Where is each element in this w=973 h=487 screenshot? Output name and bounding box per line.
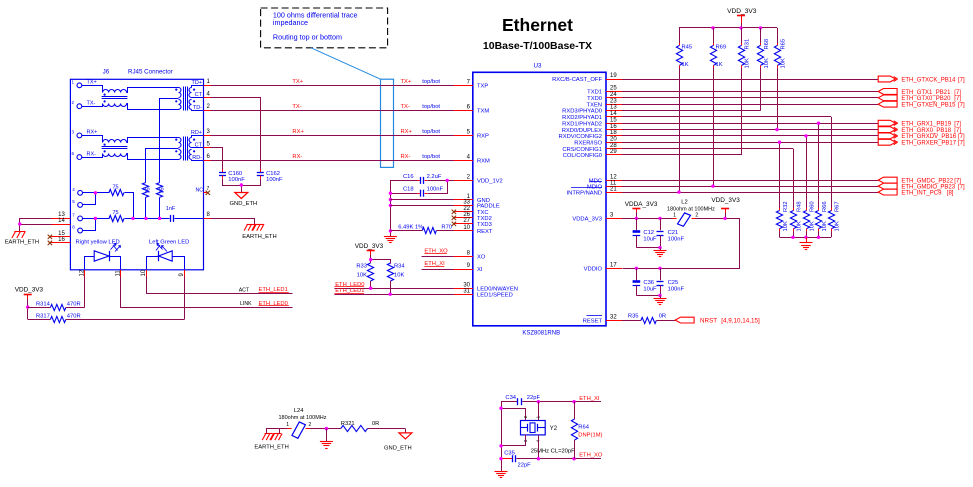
- svg-text:RXDV/CONFIG2: RXDV/CONFIG2: [559, 134, 602, 140]
- svg-text:22pF: 22pF: [518, 463, 532, 469]
- U3 pin 21 INTRP/NAND: [567, 186, 622, 196]
- svg-text:top/bot: top/bot: [422, 79, 440, 85]
- port ETH_GRXER_PB17: [878, 139, 965, 146]
- EARTH_ETH symbol (pin8): [244, 224, 264, 231]
- svg-text:ETH_LED0: ETH_LED0: [335, 282, 364, 288]
- svg-text:TX+: TX+: [292, 79, 303, 85]
- resistor R45 1K: [679, 28, 681, 43]
- wire PADDLE pin33: [390, 205, 454, 207]
- resistor R35 0R: [622, 314, 675, 324]
- junction dots VDDA row: [635, 217, 727, 220]
- RJ45 bottom pin number 10: [141, 269, 147, 276]
- wire caps to GND_ETH: [223, 179, 261, 193]
- port ETH_GRX1_PB19: [878, 120, 961, 127]
- net label ETH_XO (crystal): [579, 452, 603, 458]
- U3 pin 11 MDIO: [587, 180, 622, 190]
- svg-text:top/bot: top/bot: [422, 154, 440, 160]
- resistor 75 (TX center tap): [156, 183, 165, 219]
- termination wiring pin4/5: [83, 193, 110, 205]
- svg-text:10Base-T/100Base-TX: 10Base-T/100Base-TX: [483, 40, 592, 52]
- svg-text:[7]: [7]: [954, 90, 961, 96]
- svg-text:C12: C12: [643, 230, 654, 236]
- svg-text:TXD0: TXD0: [587, 96, 602, 102]
- U3 pin 27 TXD3: [454, 218, 492, 228]
- junction dots VDD_1V2 net: [389, 179, 449, 233]
- svg-text:LED1/SPEED: LED1/SPEED: [477, 292, 513, 298]
- svg-text:TX+: TX+: [87, 80, 97, 86]
- svg-text:VDD_3V3: VDD_3V3: [727, 8, 757, 15]
- wire U3 to port ETH_GTXEN_PB15: [622, 104, 878, 106]
- svg-text:29: 29: [610, 149, 617, 155]
- junction dots termination: [94, 191, 162, 220]
- svg-text:ETH_GRX1_PB19: ETH_GRX1_PB19: [901, 122, 951, 128]
- svg-text:Routing top or bottom: Routing top or bottom: [273, 33, 342, 42]
- wire RJ45 to PHY row y=135.4: [204, 135, 473, 137]
- RJ45 secondary label CT: [195, 142, 203, 148]
- port ETH_GTX0_PB20: [878, 95, 961, 102]
- svg-text:0R: 0R: [372, 421, 379, 427]
- capacitor C12 10uF: [633, 218, 657, 247]
- svg-text:R60: R60: [809, 201, 815, 212]
- svg-text:ETH_GTXEN_PB15: ETH_GTXEN_PB15: [901, 103, 956, 109]
- svg-text:18: 18: [610, 130, 617, 136]
- right yellow LED: [85, 244, 121, 270]
- port ETH_INT_PC9: [878, 189, 954, 196]
- RJ45 pin 5: [72, 199, 82, 207]
- U3 pin 4 RXM: [454, 155, 490, 165]
- U3 pin 12 MDC: [589, 174, 622, 184]
- svg-text:10K: 10K: [394, 273, 404, 279]
- U3 pin 15 RXD1/PHYAD2: [562, 117, 622, 127]
- net label TX+ (left): [292, 79, 303, 85]
- resistor R67 10K: [828, 201, 840, 237]
- RJ45 pin number 2: [207, 104, 211, 110]
- U3 pin 3 VDDA_3V3: [572, 213, 622, 223]
- capacitor C36 10uF: [633, 268, 657, 295]
- svg-text:ETH_GTX0_PB20: ETH_GTX0_PB20: [901, 96, 951, 102]
- svg-text:13: 13: [610, 105, 617, 111]
- svg-text:C35: C35: [504, 451, 515, 457]
- svg-text:[7]: [7]: [954, 122, 961, 128]
- svg-text:XI: XI: [477, 267, 483, 273]
- net label ETH_XI (PHY): [422, 261, 454, 270]
- svg-text:U3: U3: [534, 63, 542, 70]
- svg-text:NRST: NRST: [700, 318, 717, 325]
- svg-text:[7]: [7]: [958, 141, 965, 147]
- svg-text:10K: 10K: [796, 221, 802, 231]
- wire pin7 row: [125, 218, 170, 220]
- svg-text:PADDLE: PADDLE: [477, 204, 500, 210]
- RX common-mode choke: [82, 136, 179, 160]
- net label RX+ (left): [292, 129, 304, 135]
- RJ45 pin 4: [72, 187, 82, 195]
- svg-text:CRS/CONFIG1: CRS/CONFIG1: [562, 147, 602, 153]
- svg-text:VDDA_3V3: VDDA_3V3: [625, 201, 658, 208]
- svg-text:75: 75: [113, 185, 119, 191]
- ground (VDDA caps): [654, 251, 667, 257]
- RX isolation transformer: [146, 136, 204, 183]
- annotation dashed note box: [261, 8, 388, 48]
- port ETH_GRX0_PB18: [878, 127, 961, 134]
- resistor R65 10K: [774, 28, 786, 131]
- svg-text:100nF: 100nF: [266, 177, 283, 183]
- net label ETH_XI (crystal): [579, 396, 600, 402]
- RJ45 connector J6 body: [70, 79, 203, 269]
- svg-text:L24: L24: [294, 408, 304, 414]
- wire CRS/CONFIG1 strap: [622, 117, 832, 208]
- svg-text:VDD_3V3: VDD_3V3: [711, 197, 740, 204]
- svg-text:TXP: TXP: [477, 84, 488, 90]
- EARTH_ETH label left: [5, 239, 39, 245]
- svg-text:TXD3: TXD3: [477, 222, 492, 228]
- junction dots crystal XI row: [537, 400, 576, 403]
- svg-text:VDD_1V2: VDD_1V2: [477, 179, 503, 185]
- wire VDDA pin3 row: [622, 218, 677, 220]
- VDD_3V3 power (LED resistors): [15, 287, 44, 320]
- svg-text:R67: R67: [834, 201, 840, 212]
- svg-text:VDD_3V3: VDD_3V3: [15, 287, 44, 294]
- U3 pin 30 LED0/NWAYEN: [454, 282, 518, 292]
- net label TX+ (right): [401, 79, 441, 85]
- wire crystal top rail ETH_XI: [502, 402, 602, 472]
- resistor R66 10K: [815, 122, 827, 238]
- svg-text:[7]: [7]: [958, 134, 965, 140]
- U3 pin 9 XI: [454, 263, 483, 273]
- svg-text:RX-: RX-: [401, 154, 411, 160]
- svg-text:GND_ETH: GND_ETH: [230, 201, 258, 207]
- wire U3 to port ETH_GMDC_PB22: [622, 180, 878, 182]
- U3 pin 24 TXD0: [587, 92, 622, 102]
- wire pin10 to ACT: [147, 270, 293, 294]
- svg-text:RX+: RX+: [292, 129, 304, 135]
- svg-text:100nF: 100nF: [668, 286, 685, 292]
- svg-text:CT: CT: [195, 142, 203, 148]
- svg-text:RX+: RX+: [401, 129, 413, 135]
- wire RJ45 to PHY row y=110.4: [204, 110, 473, 112]
- svg-text:10K: 10K: [744, 58, 750, 68]
- U3 pin 6 TXM: [454, 105, 490, 115]
- wire U3 to port ETH_GRX1_PB19: [622, 123, 878, 125]
- capacitor 1nF: [166, 206, 204, 222]
- VDD_3V3 power (pull-ups): [727, 8, 757, 28]
- svg-text:100nF: 100nF: [668, 236, 685, 242]
- RJ45 pin 14: [51, 218, 70, 224]
- ground (VDDIO caps): [654, 299, 667, 305]
- svg-text:TXM: TXM: [477, 109, 489, 115]
- svg-text:C36: C36: [643, 280, 654, 286]
- svg-text:470R: 470R: [67, 301, 81, 307]
- capacitor C16 2.2uF: [391, 174, 454, 237]
- svg-text:ETH_GRX0_PB18: ETH_GRX0_PB18: [901, 128, 951, 134]
- svg-text:2: 2: [523, 415, 528, 418]
- svg-text:EARTH_ETH: EARTH_ETH: [242, 234, 276, 240]
- GND_ETH label (caps): [230, 201, 258, 207]
- wire U3 to port ETH_GTX1_PB21: [622, 91, 878, 93]
- svg-text:RD+: RD+: [191, 130, 202, 136]
- svg-text:RXD2/PHYAD1: RXD2/PHYAD1: [562, 115, 602, 121]
- svg-text:ETH_XI: ETH_XI: [579, 396, 600, 402]
- svg-text:R65: R65: [780, 39, 786, 50]
- wire RJ45 to PHY row y=85.3: [204, 85, 473, 87]
- svg-text:2: 2: [695, 212, 698, 218]
- capacitor C35 22pF: [504, 451, 531, 469]
- svg-text:TX-: TX-: [292, 104, 301, 110]
- resistor R317 470R: [28, 313, 81, 322]
- svg-text:ETH_GTX1_PB21: ETH_GTX1_PB21: [901, 90, 951, 96]
- resistor 75 (pin7 row): [109, 210, 124, 221]
- svg-text:REXT: REXT: [477, 229, 493, 235]
- resistor R31 10K: [738, 28, 750, 155]
- EARTH_ETH label (L24): [254, 445, 288, 451]
- RJ45 NC pin: [196, 186, 211, 195]
- svg-text:J6: J6: [103, 69, 110, 76]
- svg-text:180ohm at 100MHz: 180ohm at 100MHz: [667, 206, 715, 212]
- svg-text:75: 75: [113, 210, 119, 216]
- svg-text:470R: 470R: [67, 313, 81, 319]
- svg-text:ETH_GTXCK_PB14: ETH_GTXCK_PB14: [901, 77, 956, 83]
- svg-text:10K: 10K: [822, 221, 828, 231]
- wire RXD2/PHYAD1 strap: [622, 116, 831, 118]
- RJ45 bottom pin number 11: [115, 270, 121, 277]
- svg-text:1: 1: [536, 415, 541, 418]
- RJ45 secondary label TD+: [191, 80, 202, 86]
- svg-text:RXD1/PHYAD2: RXD1/PHYAD2: [562, 121, 602, 127]
- pull-down ground rail: [780, 236, 832, 243]
- svg-text:VDD_3V3: VDD_3V3: [355, 243, 384, 250]
- EARTH_ETH label (pin8): [242, 234, 276, 240]
- svg-text:R68: R68: [764, 39, 770, 50]
- svg-text:33: 33: [463, 200, 470, 206]
- svg-text:TX-: TX-: [401, 104, 410, 110]
- svg-text:24: 24: [610, 92, 617, 98]
- port NRST: [675, 317, 760, 324]
- VDD_3V3 power (R33/R34): [355, 243, 384, 263]
- U3 pin 13 RXD3/PHYAD0: [562, 105, 622, 115]
- svg-text:C16: C16: [403, 174, 414, 180]
- svg-text:10K: 10K: [783, 221, 789, 231]
- wire pins 13/14 to earth: [18, 219, 51, 232]
- net label ETH_XO (PHY): [422, 248, 454, 256]
- port ETH_GTXCK_PB14: [878, 76, 965, 83]
- svg-text:CT: CT: [195, 92, 203, 98]
- svg-text:L2: L2: [681, 200, 687, 206]
- no-connect X pins 22/26/27: [452, 210, 456, 226]
- svg-text:10K: 10K: [357, 273, 367, 279]
- subtitle 10Base-T/100Base-TX: [483, 40, 592, 52]
- svg-text:25: 25: [610, 86, 617, 92]
- RJ45 pin number 8: [207, 212, 211, 218]
- IC U3 KSZ8081RNB body: [473, 72, 606, 325]
- capacitor C160 100nF: [219, 169, 245, 183]
- crystal parameters label: [531, 448, 575, 454]
- svg-text:R48: R48: [796, 201, 802, 212]
- RJ45 pin number 5: [207, 142, 211, 148]
- wire crystal bottom rail ETH_XO: [499, 457, 601, 460]
- RJ45 pin 1 TX+: [72, 79, 97, 87]
- U3 pin 8 XO: [454, 251, 486, 261]
- GND_ETH label (L24): [384, 445, 412, 451]
- port ETH_GTX1_PB21: [878, 89, 961, 96]
- svg-text:RXER/ISO: RXER/ISO: [574, 140, 602, 146]
- wire caps to ground (VDDA): [636, 246, 661, 251]
- svg-text:10uF: 10uF: [643, 236, 657, 242]
- RJ45 pin number 4: [207, 91, 211, 97]
- resistor R45 1K body: [676, 43, 692, 194]
- svg-text:TD+: TD+: [191, 80, 202, 86]
- VDDA_3V3 power: [625, 201, 658, 218]
- RJ45 connector J6 designator: [103, 69, 110, 76]
- svg-text:TX-: TX-: [87, 100, 96, 106]
- resistor R70 6.49K 1%: [390, 224, 454, 233]
- capacitor C25 100nF: [657, 268, 685, 295]
- ferrite bead L24 180ohm: [279, 408, 341, 438]
- svg-text:LINK: LINK: [240, 301, 252, 307]
- capacitor C21 100nF: [657, 218, 685, 247]
- svg-text:Ethernet: Ethernet: [502, 15, 573, 35]
- left green LED: [147, 244, 185, 270]
- svg-text:[8]: [8]: [947, 190, 954, 196]
- RJ45 pin 2 TX-: [72, 100, 96, 108]
- svg-text:75: 75: [146, 187, 152, 193]
- op IC U3 designator: [534, 63, 542, 70]
- port ETH_GTXEN_PB15: [878, 101, 965, 108]
- U3 pin 7 TXP: [454, 80, 489, 90]
- svg-text:Left Green LED: Left Green LED: [149, 239, 189, 245]
- junction dot VDD R314: [26, 305, 29, 308]
- RJ45 pin 8: [72, 225, 82, 233]
- junction dot L24 ground: [325, 427, 328, 442]
- svg-text:75: 75: [159, 187, 165, 193]
- capacitor C162 100nF: [257, 169, 283, 183]
- wire RXD3/PHYAD0 strap: [622, 110, 761, 112]
- wire L2 to VDD_3V3: [623, 219, 740, 269]
- svg-text:19: 19: [610, 73, 617, 79]
- svg-text:1nF: 1nF: [166, 206, 176, 212]
- svg-text:EARTH_ETH: EARTH_ETH: [254, 445, 288, 451]
- svg-text:R64: R64: [578, 425, 589, 431]
- svg-text:25MHz CL=20pF: 25MHz CL=20pF: [531, 448, 575, 454]
- resistor R48 10K: [790, 201, 802, 237]
- U3 pin 26 TXD2: [454, 212, 492, 222]
- GND_ETH symbol (L24): [399, 433, 412, 439]
- svg-text:R45: R45: [682, 45, 693, 51]
- wire U3 to port ETH_GTX0_PB20: [622, 97, 878, 99]
- svg-text:1: 1: [286, 422, 289, 428]
- LINK label: [240, 301, 252, 307]
- svg-text:Right yellow LED: Right yellow LED: [76, 239, 120, 245]
- svg-text:RX-: RX-: [87, 151, 97, 157]
- svg-text:RXD3/PHYAD0: RXD3/PHYAD0: [562, 109, 602, 115]
- U3 pin 32 RESET: [583, 314, 622, 324]
- U3 pin 17 VDDIO: [584, 263, 622, 273]
- svg-text:28: 28: [610, 143, 617, 149]
- svg-text:10K: 10K: [780, 58, 786, 68]
- RJ45 pin 7: [72, 212, 82, 220]
- U3 pin 29 COL/CONFIG0: [563, 149, 622, 159]
- wire U3 to port ETH_GMDIO_PB23: [622, 186, 878, 188]
- wire U3 to port ETH_GRXER_PB17: [622, 142, 878, 144]
- svg-text:6.49K 1%: 6.49K 1%: [398, 224, 423, 230]
- wire R314 to pin12: [66, 270, 85, 308]
- capacitor C18 100nF: [390, 181, 447, 197]
- svg-text:ETH_GRXDV_PB16: ETH_GRXDV_PB16: [901, 134, 956, 140]
- svg-text:C25: C25: [668, 280, 679, 286]
- svg-text:[4,9,10,14,15]: [4,9,10,14,15]: [721, 318, 760, 325]
- svg-text:VDDIO: VDDIO: [584, 267, 603, 273]
- IC part number: [522, 331, 560, 337]
- RJ45 pin number 1: [207, 79, 211, 85]
- svg-text:RJ45 Connector: RJ45 Connector: [128, 69, 173, 76]
- svg-text:10K: 10K: [809, 221, 815, 231]
- U3 pin 1 GND: [454, 194, 490, 204]
- RJ45 pin 15: [48, 231, 71, 239]
- svg-text:KSZ8081RNB: KSZ8081RNB: [522, 331, 560, 337]
- net label ETH_LED1 (left): [259, 287, 289, 293]
- wire CT pin5 to C160: [204, 148, 223, 170]
- svg-text:17: 17: [610, 263, 617, 269]
- U3 pin 16 RXD0/DUPLEX: [562, 124, 622, 134]
- EARTH_ETH symbol (L24): [262, 429, 282, 441]
- U3 pin 31 LED1/SPEED: [454, 288, 513, 298]
- ground (pull-downs): [800, 243, 813, 250]
- svg-text:10: 10: [463, 225, 470, 231]
- svg-text:[7]: [7]: [958, 184, 965, 190]
- U3 pin 18 RXDV/CONFIG2: [559, 130, 622, 140]
- resistor R69 1K: [710, 28, 726, 188]
- wire U3 to port ETH_GTXCK_PB14: [622, 79, 878, 81]
- RJ45 secondary label RD+: [191, 130, 202, 136]
- svg-text:INTRP/NAND: INTRP/NAND: [567, 190, 602, 196]
- svg-text:23: 23: [610, 98, 617, 104]
- svg-text:1K: 1K: [716, 62, 723, 68]
- svg-text:RXP: RXP: [477, 134, 489, 140]
- wire caps to ground (VDDIO): [636, 294, 661, 298]
- svg-text:[7]: [7]: [958, 103, 965, 109]
- RJ45 pin number 3: [207, 129, 211, 135]
- net label ETH_LED1 (PHY): [334, 288, 454, 296]
- resistor R68 10K: [757, 28, 770, 111]
- RJ45 pin 6 RX-: [72, 151, 97, 159]
- svg-text:100nF: 100nF: [228, 177, 245, 183]
- svg-text:16: 16: [610, 124, 617, 130]
- svg-text:NC: NC: [196, 187, 204, 193]
- svg-text:R314: R314: [36, 301, 51, 307]
- svg-text:R31: R31: [744, 39, 750, 50]
- svg-text:1K: 1K: [682, 62, 689, 68]
- U3 pin 28 CRS/CONFIG1: [562, 143, 622, 153]
- svg-text:100nF: 100nF: [427, 187, 444, 193]
- svg-text:R317: R317: [36, 313, 50, 319]
- right yellow LED label: [76, 239, 120, 250]
- ground (REXT network): [384, 237, 397, 243]
- U3 pin 5 RXP: [454, 130, 489, 140]
- crystal Y2: [521, 415, 558, 442]
- resistor R321 0R: [341, 421, 406, 433]
- termination wiring pin7/8: [83, 219, 110, 231]
- svg-text:[7]: [7]: [954, 128, 961, 134]
- svg-text:EARTH_ETH: EARTH_ETH: [5, 239, 39, 245]
- svg-text:R69: R69: [716, 45, 727, 51]
- svg-text:C18: C18: [403, 187, 414, 193]
- svg-text:10uF: 10uF: [643, 286, 657, 292]
- svg-text:R33: R33: [356, 264, 367, 270]
- ferrite bead L2 180ohm: [667, 200, 715, 227]
- EARTH_ETH symbol (pins 13/14): [12, 231, 25, 238]
- U3 pin 25 TXD1: [587, 86, 622, 96]
- net label TX- (right): [401, 104, 441, 110]
- U3 pin 10 REXT: [454, 225, 493, 235]
- RJ45 pin 3 RX+: [72, 129, 98, 137]
